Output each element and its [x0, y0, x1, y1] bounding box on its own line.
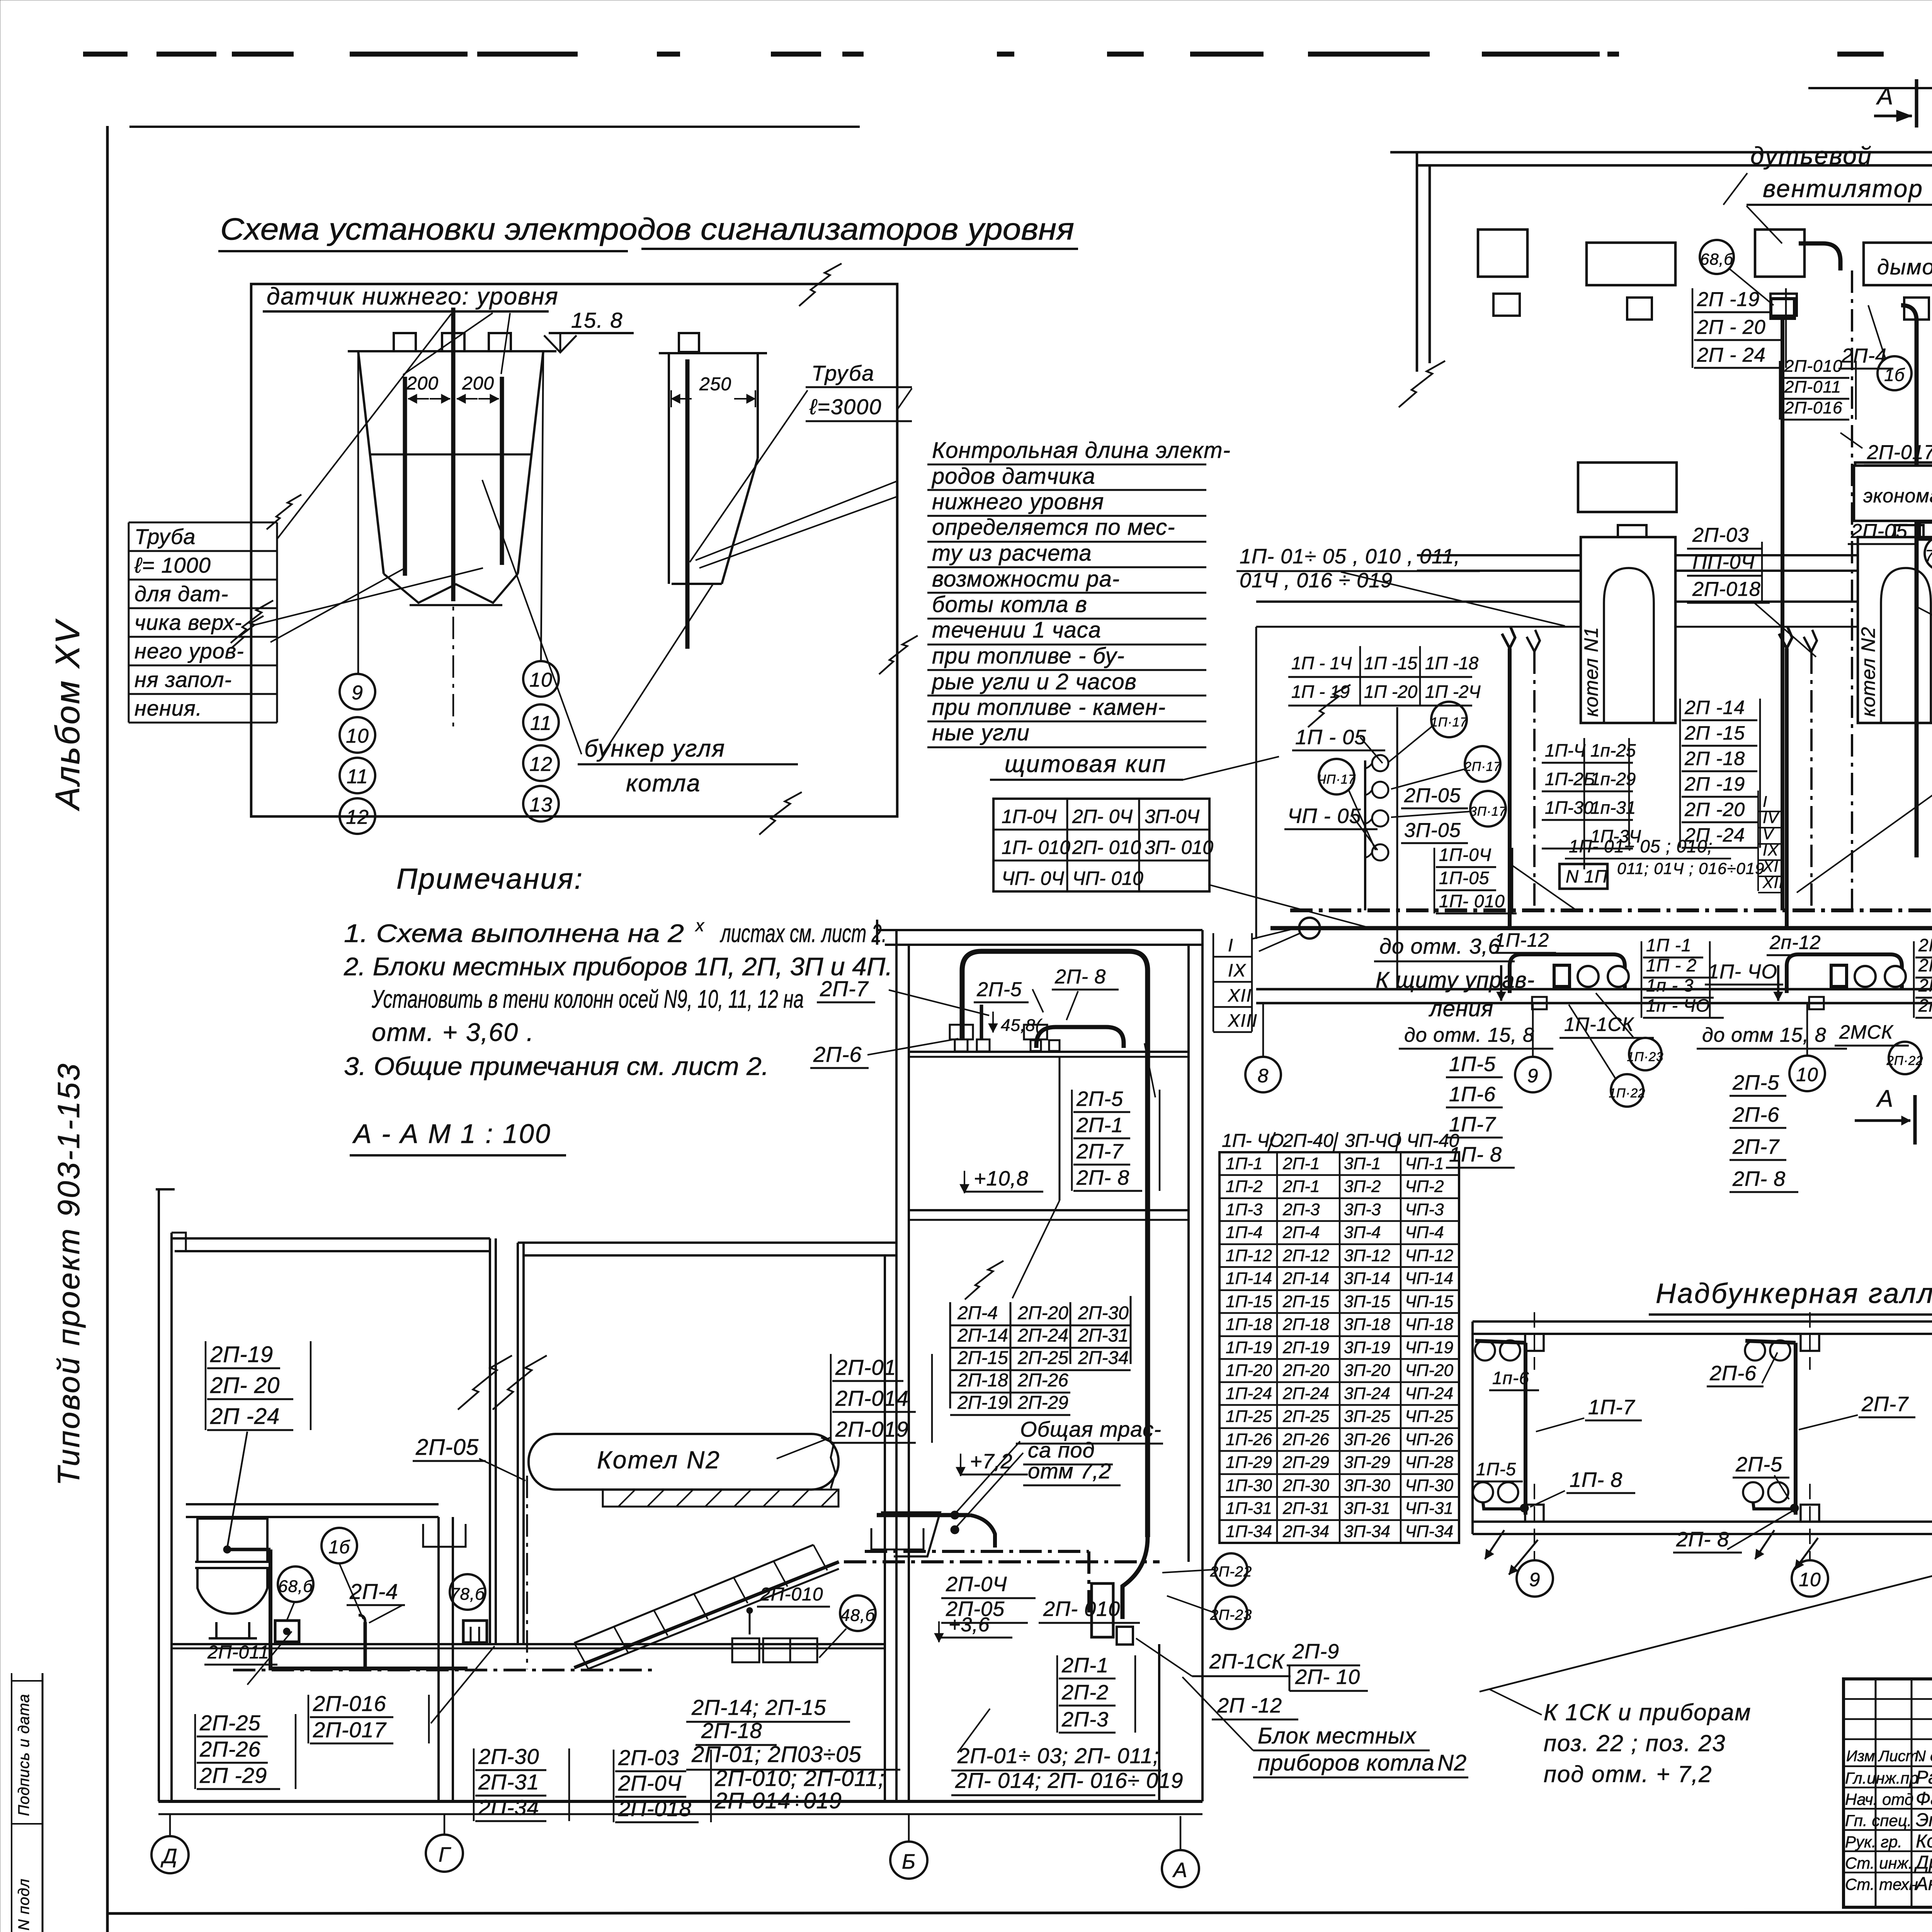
svg-text:1П-6: 1П-6 [1449, 1083, 1496, 1106]
svg-text:1П-05: 1П-05 [1439, 868, 1489, 888]
gallery bunker wall 2П [1794, 1343, 1798, 1515]
svg-text:Схема установки электродов си: Схема установки электродов сигнализаторо… [220, 212, 1074, 246]
svg-text:1П-0Ч: 1П-0Ч [1002, 806, 1056, 827]
svg-text:котла: котла [626, 770, 701, 797]
svg-text:2П-017: 2П-017 [313, 1718, 387, 1742]
svg-text:ЧП-31: ЧП-31 [1405, 1499, 1453, 1518]
gallery junction arrow 1П [1485, 1530, 1504, 1559]
svg-text:2П -18: 2П -18 [1684, 748, 1745, 769]
svg-text:чика верх-: чика верх- [134, 610, 242, 634]
svg-text:ЧП-26: ЧП-26 [1405, 1430, 1454, 1449]
heavy dashdot to tower base [844, 1560, 1160, 1563]
svg-text:2П-34: 2П-34 [1078, 1348, 1129, 1368]
svg-text:2. Блоки местных приборов 1: 2. Блоки местных приборов 1П, 2П, 3П и 4… [344, 952, 893, 981]
svg-text:Установить в тени колонн ос: Установить в тени колонн осей N9, 10, 11… [371, 985, 804, 1013]
svg-text:котел N1: котел N1 [1580, 627, 1602, 717]
svg-text:2П-010: 2П-010 [1784, 357, 1842, 376]
svg-text:2П-016: 2П-016 [313, 1691, 386, 1716]
svg-text:2П-34: 2П-34 [1282, 1522, 1329, 1541]
svg-text:вентилятор: вентилятор [1763, 175, 1923, 202]
svg-text:1П-0Ч: 1П-0Ч [1439, 845, 1492, 865]
svg-text:2П - 2: 2П - 2 [1918, 955, 1932, 975]
svg-text:2П-26: 2П-26 [1017, 1370, 1068, 1391]
gallery pulleys bottom 2П [1743, 1482, 1763, 1502]
boiler support platform hatched [603, 1490, 838, 1507]
right bunker with tube [659, 352, 767, 354]
hanger line to circles column 2 [541, 351, 543, 662]
svg-text:200: 200 [406, 373, 439, 394]
svg-text:3П-15: 3П-15 [1344, 1292, 1390, 1311]
svg-text:I: I [1763, 793, 1768, 810]
svg-text:ЧП-19: ЧП-19 [1405, 1338, 1453, 1357]
svg-text:1П-3: 1П-3 [1226, 1200, 1263, 1219]
main cable trunk heavy [1270, 857, 1932, 928]
svg-text:1П- 01÷ 05 , 010 , 011,: 1П- 01÷ 05 , 010 , 011, [1240, 545, 1460, 568]
svg-text:1П-26: 1П-26 [1226, 1430, 1272, 1449]
boiler N2 [1858, 537, 1932, 723]
svg-text:XII: XII [1228, 985, 1252, 1005]
svg-text:экономайзер: экономайзер [1863, 485, 1932, 507]
svg-text:3П-05: 3П-05 [1404, 819, 1461, 842]
local instrument box 2 [463, 1621, 487, 1643]
svg-text:1П-1СК: 1П-1СК [1564, 1014, 1634, 1035]
svg-text:68,б: 68,б [1700, 250, 1733, 268]
svg-text:12: 12 [346, 806, 369, 828]
svg-text:9: 9 [1527, 1065, 1539, 1087]
position index table grid [1219, 1152, 1459, 1543]
svg-text:1П-25: 1П-25 [1226, 1407, 1272, 1426]
circle 78б [450, 1574, 485, 1610]
svg-text:1П - 2: 1П - 2 [1646, 955, 1697, 975]
svg-text:2п - ЧО: 2п - ЧО [1918, 995, 1932, 1015]
gallery pulleys top 1П [1475, 1340, 1495, 1361]
title block signature grid [1844, 1698, 1932, 1700]
svg-text:1П- ЧО: 1П- ЧО [1708, 961, 1777, 983]
svg-text:1П-2Б: 1П-2Б [1545, 769, 1595, 789]
svg-text:Изм: Изм [1846, 1748, 1875, 1765]
svg-text:2П-010: 2П-010 [760, 1584, 823, 1605]
svg-text:1П-3Ч: 1П-3Ч [1590, 826, 1641, 846]
svg-text:1П -20: 1П -20 [1364, 682, 1418, 702]
svg-text:2П-4: 2П-4 [1282, 1223, 1320, 1242]
svg-text:ту из расчета: ту из расчета [932, 541, 1092, 566]
left bunker of boiler [348, 350, 556, 352]
svg-text:Подпись и дата: Подпись и дата [15, 1694, 32, 1816]
svg-text:ления: ления [1429, 996, 1493, 1021]
svg-text:2П-1: 2П-1 [1061, 1654, 1109, 1677]
svg-text:3П-12: 3П-12 [1344, 1246, 1390, 1265]
bay 2 equipment square [1755, 230, 1804, 277]
svg-text:при топливе - камен-: при топливе - камен- [932, 695, 1166, 720]
hanger line to circles column 1 [357, 351, 359, 674]
cable loop at tower top [962, 951, 1148, 1537]
svg-text:при топливе - бу-: при топливе - бу- [932, 643, 1125, 668]
svg-text:XI: XI [1762, 858, 1779, 875]
svg-text:2П-1СК: 2П-1СК [1209, 1650, 1285, 1673]
svg-text:1П -2Ч: 1П -2Ч [1425, 682, 1481, 702]
heavy cable run on floor [269, 1549, 272, 1668]
left sheet frame line [106, 126, 109, 1932]
svg-text:1п - ЧО: 1п - ЧО [1646, 995, 1710, 1015]
local instrument box 1 [275, 1621, 299, 1642]
svg-text:1П-31: 1П-31 [1226, 1499, 1272, 1518]
circle 68б bay2 left [1700, 240, 1734, 274]
bay 2 lower equipment [1855, 463, 1932, 512]
svg-text:1П-30: 1П-30 [1545, 798, 1594, 818]
svg-text:13: 13 [529, 794, 553, 816]
leader from right note into box [696, 481, 897, 560]
svg-text:нижнего уровня: нижнего уровня [932, 489, 1104, 514]
svg-text:2П-20: 2П-20 [1017, 1303, 1068, 1323]
svg-text:1б: 1б [328, 1537, 350, 1558]
axis circle А section [1180, 1816, 1182, 1850]
sheet bottom rule [107, 1912, 1932, 1913]
bottom hopper in tower [881, 1512, 940, 1556]
svg-text:2П-05: 2П-05 [1850, 520, 1908, 543]
circle 68б [278, 1566, 313, 1602]
svg-text:3П-30: 3П-30 [1344, 1476, 1390, 1495]
svg-text:Этинген: Этинген [1916, 1810, 1932, 1830]
svg-text:2П-24: 2П-24 [1017, 1325, 1068, 1346]
svg-text:под отм. + 7,2: под отм. + 7,2 [1544, 1761, 1713, 1787]
svg-text:1П-5: 1П-5 [1449, 1053, 1496, 1076]
gallery axis column squares [1525, 1334, 1544, 1351]
svg-text:2П-03: 2П-03 [618, 1745, 679, 1770]
partition wall with break [489, 1238, 491, 1644]
svg-text:1П-24: 1П-24 [1226, 1384, 1272, 1403]
electrode left [403, 377, 407, 576]
bay 1 equipment square [1478, 230, 1527, 277]
svg-text:щитовая кип: щитовая кип [1005, 751, 1167, 777]
svg-text:3П-18: 3П-18 [1344, 1315, 1390, 1334]
svg-text:2п-12: 2п-12 [1769, 932, 1821, 953]
svg-text:1П - 1Ч: 1П - 1Ч [1291, 653, 1352, 673]
svg-text:2П -19: 2П -19 [1684, 773, 1745, 795]
svg-text:ЧП-28: ЧП-28 [1405, 1453, 1454, 1472]
svg-text:1. Схема выполнена на 2: 1. Схема выполнена на 2 [344, 919, 684, 947]
svg-text:1П -15: 1П -15 [1364, 653, 1418, 673]
cyclone vessel [197, 1519, 267, 1562]
title block outer box [1844, 1679, 1932, 1907]
machines on floor [955, 1039, 968, 1051]
control room ceiling [186, 1503, 439, 1505]
svg-text:1П-14: 1П-14 [1226, 1269, 1272, 1288]
box N1П [1560, 864, 1607, 889]
bay 1 risers [1508, 648, 1512, 928]
svg-text:2П-5: 2П-5 [1735, 1453, 1782, 1476]
gallery pulleys bottom 1П [1473, 1482, 1493, 1502]
circle 2П-22 [1215, 1553, 1247, 1586]
svg-text:3П-4: 3П-4 [1344, 1223, 1381, 1242]
svg-text:2П-20: 2П-20 [1282, 1361, 1329, 1380]
svg-text:2П-29: 2П-29 [1017, 1393, 1068, 1413]
plan outer wall top [1390, 151, 1932, 154]
electrode center [451, 308, 456, 601]
svg-text:Нач. отд: Нач. отд [1845, 1790, 1913, 1808]
svg-text:2П-31: 2П-31 [1282, 1499, 1329, 1518]
detail box [251, 284, 897, 816]
svg-text:3П- 010: 3П- 010 [1145, 837, 1213, 858]
svg-text:ЧП-18: ЧП-18 [1405, 1315, 1454, 1334]
svg-text:ня запол-: ня запол- [134, 667, 232, 692]
svg-text:200: 200 [462, 373, 494, 394]
svg-text:отм. + 3,60 .: отм. + 3,60 . [372, 1018, 534, 1046]
label экономайзер box [1854, 466, 1932, 521]
svg-text:2П-18: 2П-18 [701, 1718, 762, 1743]
svg-text:приборов котла: приборов котла [1258, 1750, 1435, 1776]
svg-text:2П- 8: 2П- 8 [1076, 1166, 1129, 1189]
svg-text:1П-Ч: 1П-Ч [1545, 740, 1586, 760]
svg-text:2П-4: 2П-4 [957, 1303, 998, 1323]
svg-text:250: 250 [699, 374, 731, 395]
svg-text:2П-30: 2П-30 [1282, 1476, 1329, 1495]
svg-text:2П- 014; 2П- 016÷ 019: 2П- 014; 2П- 016÷ 019 [955, 1768, 1184, 1793]
svg-text:15. 8: 15. 8 [571, 308, 623, 332]
svg-text:1П-30: 1П-30 [1226, 1476, 1272, 1495]
svg-text:3П-26: 3П-26 [1344, 1430, 1390, 1449]
roof bay 1 [172, 1237, 490, 1240]
mid floor tower [909, 1209, 1189, 1211]
svg-text:2П-3: 2П-3 [1061, 1708, 1109, 1731]
svg-text:1П-18: 1П-18 [1226, 1315, 1272, 1334]
svg-text:2П-15: 2П-15 [957, 1348, 1008, 1368]
svg-text:1б: 1б [1884, 365, 1905, 385]
svg-text:2П-019: 2П-019 [835, 1417, 909, 1441]
gallery axis number circles [1517, 1560, 1553, 1597]
svg-text:78,б: 78,б [450, 1585, 485, 1604]
svg-text:11: 11 [530, 712, 552, 735]
svg-text:Контрольная длина элект-: Контрольная длина элект- [932, 438, 1231, 463]
svg-text:1П-7: 1П-7 [1588, 1396, 1635, 1419]
svg-text:2П- 010: 2П- 010 [1043, 1597, 1120, 1621]
svg-text:1П-1: 1П-1 [1226, 1154, 1262, 1173]
svg-text:боты котла в: боты котла в [932, 592, 1087, 617]
svg-text:1П-12: 1П-12 [1226, 1246, 1272, 1265]
circles 1П-23 1П-22 leaders [1596, 993, 1634, 1039]
svg-text:Блок местных: Блок местных [1258, 1723, 1417, 1748]
thick cable bay2 right [1901, 305, 1917, 857]
svg-text:Файерштейн: Файерштейн [1916, 1789, 1932, 1809]
svg-text:ЧП - 05: ЧП - 05 [1287, 804, 1361, 828]
svg-text:3П-14: 3П-14 [1344, 1269, 1390, 1288]
svg-text:родов датчика: родов датчика [931, 464, 1095, 489]
bay 2 wide equipment [1864, 243, 1932, 285]
gallery bottom wall [1473, 1520, 1932, 1523]
svg-text:2П -15: 2П -15 [1684, 722, 1745, 744]
svg-text:Труба: Труба [811, 361, 875, 385]
gallery top wall [1473, 1320, 1932, 1323]
bay 1 lower equipment [1578, 463, 1677, 512]
svg-text:10: 10 [346, 725, 369, 747]
svg-text:2П-31: 2П-31 [1078, 1325, 1129, 1346]
svg-text:N документа: N документа [1915, 1748, 1932, 1765]
circle 1б plan [1878, 356, 1912, 390]
svg-text:2П-03: 2П-03 [1692, 524, 1749, 546]
dash-dot riser 2П-05 [526, 1476, 528, 1669]
svg-text:2П -20: 2П -20 [1684, 799, 1745, 820]
svg-text:2П -12: 2П -12 [1217, 1694, 1282, 1717]
leader lines to lower-level sensor [253, 568, 483, 625]
svg-text:ЧП-3: ЧП-3 [1405, 1200, 1444, 1219]
svg-text:2П-6: 2П-6 [1732, 1103, 1779, 1126]
axis circle Г section [444, 1814, 446, 1835]
svg-text:3П-25: 3П-25 [1344, 1407, 1390, 1426]
svg-text:К 1СК и приборам: К 1СК и приборам [1544, 1699, 1752, 1725]
svg-text:ЧП-4: ЧП-4 [1405, 1223, 1444, 1242]
svg-text:Рук. гр.: Рук. гр. [1845, 1833, 1902, 1851]
svg-text:1П·23: 1П·23 [1627, 1049, 1664, 1064]
svg-text:2П-18: 2П-18 [1282, 1315, 1329, 1334]
svg-text:2П-01÷ 03; 2П- 011;: 2П-01÷ 03; 2П- 011; [957, 1743, 1159, 1768]
circle 2П-23 [1215, 1597, 1247, 1629]
basement floor [158, 1800, 1202, 1803]
boiler N1 [1581, 537, 1675, 723]
bay 1 wide equipment [1587, 243, 1675, 285]
main cable trunk dash-dot [1290, 908, 1932, 912]
svg-text:ЧП- 0Ч: ЧП- 0Ч [1002, 867, 1064, 889]
svg-text:1П-12: 1П-12 [1495, 929, 1549, 951]
svg-text:Ст. техн: Ст. техн [1845, 1875, 1918, 1893]
svg-text:2П-30: 2П-30 [1078, 1303, 1129, 1323]
svg-text:дымосос: дымосос [1877, 255, 1932, 279]
svg-text:N2: N2 [1437, 1750, 1467, 1776]
roof bay 2 [518, 1242, 896, 1244]
svg-text:3П-3: 3П-3 [1344, 1200, 1381, 1219]
svg-text:1П- 010: 1П- 010 [1439, 891, 1505, 911]
svg-text:возможности ра-: возможности ра- [932, 566, 1120, 592]
svg-text:Примечания:: Примечания: [396, 862, 583, 895]
svg-text:ПП-0Ч: ПП-0Ч [1692, 551, 1755, 573]
svg-text:2П-19: 2П-19 [210, 1342, 273, 1367]
svg-text:3П-29: 3П-29 [1344, 1453, 1390, 1472]
svg-text:2П-014: 2П-014 [835, 1386, 909, 1410]
svg-text:1п - 3: 1п - 3 [1646, 975, 1694, 995]
dash-dot riser bay2 [1851, 270, 1853, 910]
tube electrode [685, 359, 690, 649]
svg-text:N 1П: N 1П [1566, 866, 1608, 886]
svg-text:1П- 010: 1П- 010 [1002, 837, 1070, 858]
svg-text:рые угли и 2 часов: рые угли и 2 часов [931, 669, 1137, 694]
svg-text:1п-6: 1п-6 [1492, 1368, 1529, 1388]
svg-text:3П-19: 3П-19 [1344, 1338, 1390, 1357]
svg-text:IV: IV [1763, 810, 1779, 827]
svg-text:2П-15: 2П-15 [1282, 1292, 1329, 1311]
svg-text:А: А [1876, 1085, 1893, 1112]
svg-text:3П-2: 3П-2 [1344, 1177, 1381, 1196]
axis А wall [1256, 988, 1932, 991]
svg-text:ℓ=3000: ℓ=3000 [809, 395, 882, 419]
svg-text:2П -29: 2П -29 [199, 1763, 267, 1787]
svg-text:9: 9 [352, 682, 363, 704]
small connector box [1117, 1627, 1133, 1645]
svg-text:ЧП-25: ЧП-25 [1405, 1407, 1454, 1426]
axis circles 8-13 plan [1245, 1057, 1281, 1092]
ground floor line [172, 1643, 885, 1645]
svg-text:Гл.инж.пр: Гл.инж.пр [1845, 1769, 1918, 1787]
svg-text:ЧП-15: ЧП-15 [1405, 1292, 1454, 1311]
svg-text:2П - 20: 2П - 20 [1697, 316, 1766, 338]
svg-text:определяется по мес-: определяется по мес- [932, 515, 1175, 540]
kip room walls [1255, 627, 1257, 939]
svg-text:2П-26: 2П-26 [199, 1737, 261, 1761]
table 1П-04 2П-04 3П-04 / 010 [993, 799, 1209, 891]
fan cable bay2 [1799, 243, 1840, 270]
svg-text:2П -24: 2П -24 [210, 1404, 280, 1429]
svg-text:2П-14: 2П-14 [957, 1325, 1008, 1346]
svg-text:2П-30: 2П-30 [478, 1744, 539, 1769]
svg-text:1П·17: 1П·17 [1431, 715, 1468, 729]
svg-text:ЧП·17: ЧП·17 [1318, 772, 1356, 786]
svg-text:листах см. лист 2.: листах см. лист 2. [719, 919, 887, 947]
svg-text:V: V [1763, 826, 1774, 843]
circle 1б [321, 1528, 357, 1563]
circle 1П-17 [1431, 702, 1467, 737]
svg-text:1П- 8: 1П- 8 [1449, 1143, 1502, 1166]
svg-text:2П-19: 2П-19 [957, 1393, 1008, 1413]
svg-text:1П-20: 1П-20 [1226, 1361, 1272, 1380]
machine room floor [909, 1051, 1189, 1053]
svg-text:2П-40: 2П-40 [1282, 1131, 1333, 1151]
svg-text:2П-010; 2П-011;: 2П-010; 2П-011; [714, 1766, 885, 1791]
svg-text:2П-7: 2П-7 [820, 976, 869, 1001]
svg-text:2П-5: 2П-5 [976, 978, 1022, 1001]
svg-text:нения.: нения. [134, 696, 202, 720]
gallery long leader line [1480, 1565, 1932, 1692]
svg-text:2П - 1: 2П - 1 [1918, 935, 1932, 955]
svg-text:ные угли: ные угли [932, 720, 1030, 745]
gallery tower walls [895, 930, 898, 1801]
conduit from machines down [1059, 1057, 1061, 1201]
heavy cable at tower bottom [877, 1513, 970, 1517]
svg-text:10: 10 [1796, 1064, 1818, 1085]
svg-text:2П-24: 2П-24 [1282, 1384, 1329, 1403]
svg-text:3П-24: 3П-24 [1344, 1384, 1390, 1403]
svg-text:Раскин: Раскин [1916, 1767, 1932, 1788]
svg-text:XII: XII [1762, 874, 1784, 891]
svg-text:1П - 05: 1П - 05 [1295, 726, 1366, 749]
plan left wall with break [1416, 152, 1418, 372]
svg-text:бункер угля: бункер угля [584, 735, 725, 762]
svg-text:датчик нижнего: уровня: датчик нижнего: уровня [267, 283, 559, 310]
svg-text:2П-25: 2П-25 [1017, 1348, 1068, 1368]
bay 2 risers [1785, 648, 1789, 928]
svg-text:ЧП-1: ЧП-1 [1405, 1154, 1444, 1173]
svg-text:9: 9 [1529, 1569, 1541, 1590]
svg-text:2П-016: 2П-016 [1784, 398, 1842, 417]
trunk node circle [1299, 918, 1320, 939]
svg-text:I: I [1228, 935, 1234, 955]
svg-text:2П-25: 2П-25 [199, 1711, 261, 1735]
svg-text:1П-2: 1П-2 [1226, 1177, 1262, 1196]
gallery junction arrow 2П [1755, 1530, 1774, 1559]
svg-text:3П·17: 3П·17 [1470, 804, 1507, 818]
svg-text:2П-011: 2П-011 [1784, 378, 1841, 396]
svg-text:Коганов: Коганов [1916, 1831, 1932, 1852]
svg-text:2П-1: 2П-1 [1282, 1154, 1320, 1173]
svg-text:2П -14: 2П -14 [1684, 697, 1745, 718]
boiler drum N2 [529, 1434, 838, 1490]
svg-text:А - А М 1 : 100: А - А М 1 : 100 [352, 1119, 551, 1149]
svg-text:Дракина: Дракина [1914, 1852, 1932, 1873]
bay 2 local instrument cluster [1787, 954, 1902, 993]
svg-text:2П-34: 2П-34 [478, 1795, 539, 1820]
svg-text:1П- 8: 1П- 8 [1570, 1468, 1622, 1492]
svg-text:2П-6: 2П-6 [1709, 1362, 1757, 1385]
svg-text:3П-31: 3П-31 [1344, 1499, 1390, 1518]
svg-text:2П -24: 2П -24 [1684, 824, 1745, 846]
svg-text:2П-5: 2П-5 [1076, 1087, 1123, 1111]
svg-text:3П-1: 3П-1 [1344, 1154, 1381, 1173]
